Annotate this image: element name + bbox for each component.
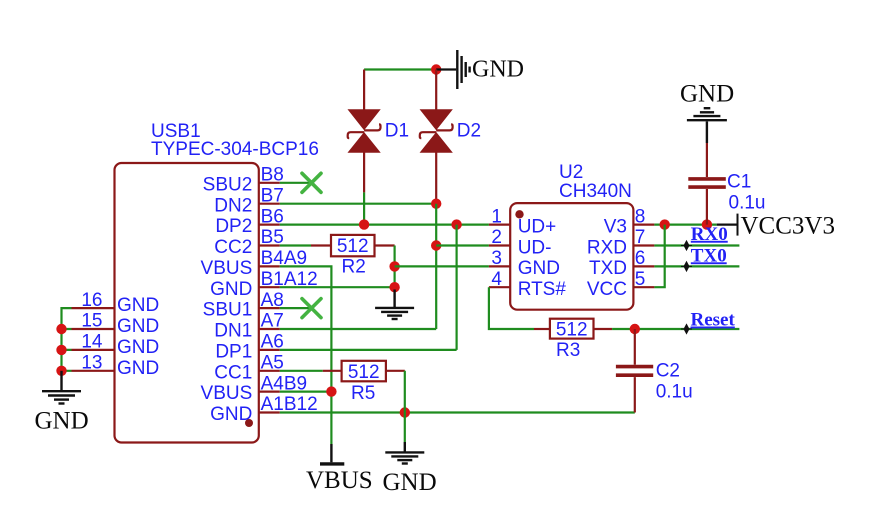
wire DP1 vertical (456, 225, 458, 350)
svg-text:TXD: TXD (589, 258, 627, 279)
svg-text:GND: GND (210, 404, 252, 425)
junction C1 V3 (702, 219, 712, 229)
pin stub 15 (72, 328, 115, 330)
svg-text:UD-: UD- (518, 237, 552, 258)
wire U2 V3 to VCC3V3 (654, 224, 716, 226)
wire TXD to TX0 (654, 265, 739, 267)
wire CC1 to R5 (280, 370, 323, 372)
wire R5 left lead (323, 370, 342, 372)
wire R5 right lead (386, 370, 405, 372)
svg-text:VBUS: VBUS (306, 467, 373, 494)
ground R2 stem (393, 290, 395, 308)
wire R2 left lead (311, 244, 331, 246)
wire R3 to Reset port (612, 328, 739, 330)
VBUS flag stem (330, 444, 332, 462)
svg-text:R5: R5 (351, 383, 375, 404)
wire R2 down to ground (394, 246, 396, 288)
pin stub 16 (72, 307, 115, 309)
ground left stem (60, 371, 62, 391)
svg-text:V3: V3 (604, 216, 627, 237)
net port tick RX0 (681, 241, 692, 250)
U2 pin 6 stub (633, 265, 654, 267)
wire RXD to RX0 (654, 244, 739, 246)
U2 pin 1 stub (489, 224, 510, 226)
svg-text:VBUS: VBUS (201, 258, 253, 279)
junction A1B12 R5 ground (400, 407, 410, 417)
svg-text:512: 512 (348, 362, 380, 383)
junction D1 DP2 (359, 219, 369, 229)
net port tick Reset (681, 325, 692, 334)
svg-text:RTS#: RTS# (518, 279, 567, 300)
ground R5 symbol (385, 452, 424, 463)
wire A8 to no-connect (280, 307, 312, 309)
junction A4B9 VBUS (326, 386, 336, 396)
svg-text:R2: R2 (342, 256, 366, 277)
wire GND B1A12 to R2 ground (280, 286, 395, 288)
resistor R2 (331, 235, 375, 256)
U2 pin1 indicator dot (515, 210, 523, 218)
svg-text:GND: GND (117, 316, 159, 337)
svg-text:VBUS: VBUS (201, 383, 253, 404)
pin stub A6 (259, 349, 280, 351)
junction pin13 (56, 366, 66, 376)
U2 pin 7 stub (633, 244, 654, 246)
svg-text:RXD: RXD (587, 237, 627, 258)
wire DP1 to DP2 vertical (280, 349, 457, 351)
junction DP2 vertical (451, 219, 461, 229)
svg-text:CC2: CC2 (214, 237, 252, 258)
junction R2 ground B1A12 (389, 282, 399, 292)
resistor R3 (550, 319, 594, 339)
U2 pin 4 stub (489, 286, 510, 288)
wire R5 down to ground (404, 371, 406, 442)
svg-text:0.1u: 0.1u (656, 382, 693, 403)
wire UD- to U2 pin2 (436, 244, 489, 246)
pin stub B6 (259, 224, 280, 226)
svg-text:Reset: Reset (691, 310, 736, 331)
ground C1 stem (706, 122, 708, 144)
wire D2 bottom lead (435, 152, 437, 203)
svg-text:R3: R3 (556, 340, 580, 361)
chip U2 body (510, 203, 633, 310)
ground R2 symbol (375, 308, 414, 319)
svg-text:GND: GND (472, 57, 524, 83)
VBUS flag bar (320, 462, 344, 465)
pin stub B4A9 (259, 265, 280, 267)
pin stub A5 (259, 370, 280, 372)
svg-text:RX0: RX0 (691, 224, 728, 245)
svg-text:DN1: DN1 (214, 321, 252, 342)
wire VBUS A4B9 to VBUS net (280, 391, 332, 393)
pin stub A4B9 (259, 391, 280, 393)
ground left symbol (42, 391, 81, 403)
svg-text:CH340N: CH340N (559, 181, 632, 202)
svg-text:512: 512 (337, 236, 369, 257)
diode D2 (420, 70, 453, 153)
U2 pin 3 stub (489, 265, 510, 267)
wire D1 to DP2 net (363, 192, 365, 224)
svg-text:GND: GND (210, 279, 252, 300)
pin stub B5 (259, 244, 280, 246)
junction UD- net (431, 240, 441, 250)
svg-text:VCC3V3: VCC3V3 (741, 213, 835, 240)
U2 pin 2 stub (489, 244, 510, 246)
netflag VCC3V3 tick (737, 214, 739, 236)
wire VCC vertical to pin5 (654, 225, 664, 288)
capacitor C2 (616, 329, 653, 413)
wire GND net to U2 pin3 (395, 265, 489, 267)
svg-text:GND: GND (518, 258, 560, 279)
wire top GND black stub (436, 68, 456, 70)
U2 pin 5 stub (633, 286, 654, 288)
ground top symbol (rotated) (457, 50, 469, 89)
ground C1 symbol (flipped) (687, 108, 727, 120)
resistor R5 (342, 361, 386, 382)
svg-text:SBU1: SBU1 (203, 300, 253, 321)
svg-text:VCC: VCC (587, 279, 627, 300)
svg-text:D1: D1 (385, 121, 409, 142)
wire DN2 to D2 junction (280, 203, 436, 205)
junction pin15 (56, 324, 66, 334)
wire VBUS B4A9 elbow (280, 266, 332, 444)
pin stub 13 (72, 370, 115, 372)
svg-text:GND: GND (680, 81, 734, 108)
svg-text:U2: U2 (559, 162, 583, 183)
svg-text:GND: GND (117, 358, 159, 379)
pin stub A1B12 (259, 411, 280, 413)
wire GND A1B12 to C2 (280, 411, 635, 413)
wire DN1 to D2 vertical (280, 328, 436, 330)
wire left GND bus (62, 308, 72, 371)
pin stub A7 (259, 328, 280, 330)
junction D2 DN2 (431, 199, 441, 209)
pin stub A8 (259, 307, 280, 309)
wire DP2 to U2 pin1 (280, 224, 489, 226)
ground R5 stem (404, 442, 406, 452)
svg-text:TX0: TX0 (691, 245, 727, 266)
connector USB1 body (115, 163, 259, 443)
svg-text:UD+: UD+ (518, 216, 557, 237)
USB1 orientation dot (245, 419, 253, 427)
pin stub 14 (72, 349, 115, 351)
wire R3 right lead (594, 328, 613, 330)
no-connect X on A8 (302, 299, 321, 318)
svg-text:SBU2: SBU2 (203, 174, 253, 195)
wire R3 left lead (534, 328, 550, 330)
wire top D1 to GND junction (364, 68, 436, 70)
junction Reset C2 (630, 324, 640, 334)
svg-text:DP2: DP2 (215, 216, 252, 237)
svg-text:D2: D2 (457, 121, 481, 142)
junction V3 VCC vertical (660, 219, 670, 229)
capacitor C1 (688, 143, 726, 225)
wire VCC3V3 black stub (717, 224, 738, 226)
junction pin14 (56, 345, 66, 355)
wire D1 bottom lead (363, 152, 365, 192)
wire B8 to no-connect (280, 182, 312, 184)
pin stub B1A12 (259, 286, 280, 288)
net port tick TX0 (681, 262, 692, 271)
diode D1 (348, 70, 381, 153)
U2 pin 8 stub (633, 224, 654, 226)
svg-text:C1: C1 (727, 172, 751, 193)
wire R2 right lead (375, 244, 395, 246)
junction top GND (431, 64, 441, 74)
svg-text:GND: GND (383, 469, 437, 496)
no-connect X on B8 (302, 173, 321, 192)
svg-text:DP1: DP1 (215, 342, 252, 363)
svg-text:DN2: DN2 (214, 195, 252, 216)
pin stub B8 (259, 182, 280, 184)
junction R2 U2 GND pin (389, 261, 399, 271)
svg-text:GND: GND (117, 337, 159, 358)
svg-text:GND: GND (35, 408, 89, 435)
svg-text:C2: C2 (656, 361, 680, 382)
wire RTS# elbow to R3 (489, 287, 534, 329)
pin stub B7 (259, 203, 280, 205)
svg-text:CC1: CC1 (214, 362, 252, 383)
svg-text:GND: GND (117, 295, 159, 316)
svg-text:512: 512 (556, 319, 588, 340)
wire D2 down to DN1 (435, 204, 437, 329)
wire CC2 to R2 (280, 244, 311, 246)
svg-text:TYPEC-304-BCP16: TYPEC-304-BCP16 (151, 139, 319, 160)
svg-text:0.1u: 0.1u (729, 193, 766, 214)
